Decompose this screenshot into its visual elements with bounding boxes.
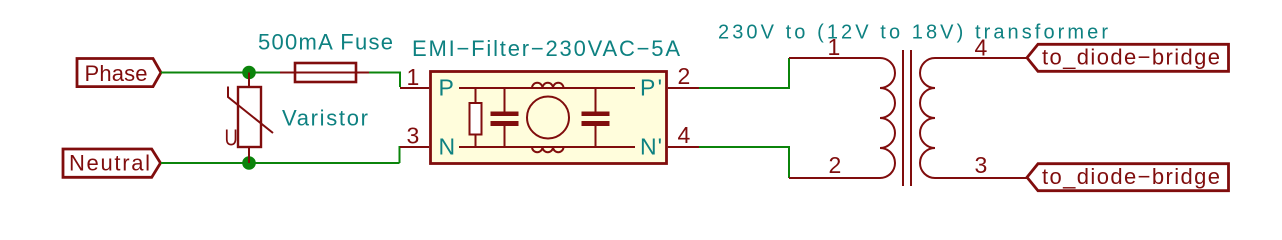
EMI filter internal capacitor C2: [582, 88, 610, 147]
EMI filter bottom rail N to N': [459, 146, 635, 148]
svg-text:230V to (12V to 18V) transform: 230V to (12V to 18V) transformer: [718, 22, 1108, 44]
svg-text:2: 2: [829, 152, 842, 178]
wire pin 2 to transformer pin 1: [699, 58, 789, 88]
svg-text:3: 3: [975, 152, 988, 178]
wire pin 4 to transformer pin 2: [699, 147, 789, 178]
varistor RV1: [228, 73, 273, 164]
EMI filter U1 body: [431, 72, 667, 164]
EMI filter top rail P to P': [459, 87, 635, 89]
fuse F1: [280, 63, 369, 82]
wire Neutral up to pin 3: [399, 146, 401, 163]
pin 4 of EMI filter: [668, 146, 699, 148]
transformer T1 core: [902, 50, 904, 186]
svg-text:to_diode−bridge: to_diode−bridge: [1042, 164, 1220, 189]
wire Phase to fuse: [161, 72, 280, 74]
junction dot on Neutral wire: [242, 156, 256, 170]
transformer T1 pin 1 lead: [789, 57, 880, 59]
svg-text:3: 3: [407, 123, 420, 149]
svg-text:U: U: [225, 126, 238, 151]
svg-text:N: N: [439, 134, 456, 160]
svg-text:Phase: Phase: [85, 61, 148, 86]
svg-text:P: P: [439, 75, 454, 101]
EMI filter choke bottom winding: [532, 147, 564, 152]
transformer T1 pin 4 lead: [935, 57, 1027, 59]
junction dot on Phase wire: [242, 66, 256, 80]
svg-text:2: 2: [678, 63, 691, 89]
EMI filter internal capacitor C1: [491, 88, 519, 147]
svg-text:4: 4: [678, 122, 691, 148]
EMI filter internal resistor: [470, 88, 482, 147]
transformer T1 secondary winding: [920, 58, 935, 178]
hierarchical label Neutral: [63, 149, 161, 177]
svg-text:4: 4: [975, 35, 988, 61]
transformer T1 primary winding: [880, 58, 895, 178]
hierarchical label to_diode-bridge top: [1027, 44, 1229, 71]
svg-text:P': P': [640, 75, 662, 101]
svg-text:1: 1: [407, 64, 420, 90]
wire fuse to pin 1: [369, 73, 400, 88]
EMI filter choke top winding: [532, 83, 564, 88]
svg-text:N': N': [640, 134, 662, 160]
pin 1 of EMI filter: [400, 87, 429, 89]
svg-text:EMI−Filter−230VAC−5A: EMI−Filter−230VAC−5A: [412, 36, 680, 61]
wire Neutral horizontal: [161, 162, 400, 164]
svg-text:Neutral: Neutral: [69, 151, 150, 176]
hierarchical label Phase: [77, 59, 161, 87]
svg-text:500mA Fuse: 500mA Fuse: [258, 30, 393, 55]
hierarchical label to_diode-bridge bottom: [1027, 164, 1229, 191]
svg-text:to_diode−bridge: to_diode−bridge: [1042, 45, 1220, 70]
transformer T1 pin 3 lead: [935, 177, 1027, 179]
EMI filter common-mode choke circle: [527, 97, 569, 139]
transformer T1 pin 2 lead: [789, 177, 880, 179]
svg-text:1: 1: [828, 34, 841, 60]
pin 3 of EMI filter: [400, 146, 429, 148]
pin 2 of EMI filter: [668, 87, 699, 89]
